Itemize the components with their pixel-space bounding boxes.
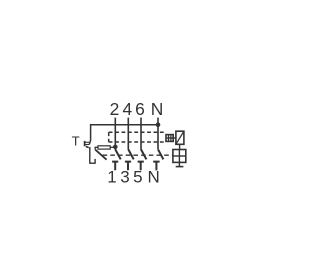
junction on pole 2 conductor [113, 145, 118, 150]
terminal post 3 [125, 162, 131, 171]
wire pole 4 conductor [127, 118, 129, 150]
junction on N conductor [156, 122, 161, 127]
current transformer core bottom dashed [109, 141, 166, 143]
svg-text:6: 6 [135, 99, 145, 119]
auxiliary contact blade [95, 150, 106, 160]
test button plunger link [85, 141, 89, 143]
switch blade pole 4 [128, 149, 133, 159]
switch blade pole N [158, 149, 163, 159]
trip relay [176, 131, 184, 144]
svg-text:N: N [151, 99, 164, 119]
wire resistor left lead [95, 147, 98, 149]
wire test drop to button [90, 124, 92, 140]
release coil [173, 150, 186, 163]
release coil bottom bar [176, 166, 184, 168]
current transformer core left dashed [108, 132, 110, 142]
test button contact blade [89, 140, 90, 145]
svg-text:2: 2 [110, 99, 120, 119]
switch blade pole 6 [141, 149, 146, 159]
switch blade pole 2 [115, 149, 120, 159]
svg-text:1: 1 [107, 168, 116, 187]
svg-text:T: T [72, 134, 80, 149]
terminal post 1 [112, 162, 118, 171]
svg-text:N: N [147, 168, 159, 187]
svg-text:5: 5 [133, 168, 142, 187]
wire resistor right lead [110, 146, 115, 148]
svg-text:3: 3 [120, 168, 129, 187]
trip mechanism linkage dashed [103, 154, 173, 156]
wire test circuit top horizontal [91, 124, 158, 126]
wire winding to relay [166, 137, 176, 139]
wire pole 2 conductor [114, 118, 116, 150]
wire pole 6 conductor [140, 118, 142, 150]
test button contact tip [86, 146, 89, 147]
svg-text:4: 4 [122, 99, 132, 119]
current transformer core top dashed [109, 131, 166, 133]
wire relay to release coil [179, 144, 181, 149]
wire release coil bottom [178, 162, 180, 166]
terminal post 5 [138, 162, 144, 171]
wire test lower hook [90, 147, 95, 163]
resistor R test [98, 146, 110, 149]
secondary winding [166, 135, 173, 142]
wire pole N conductor [157, 118, 159, 150]
terminal post N [153, 162, 159, 171]
test button cap [84, 141, 86, 146]
